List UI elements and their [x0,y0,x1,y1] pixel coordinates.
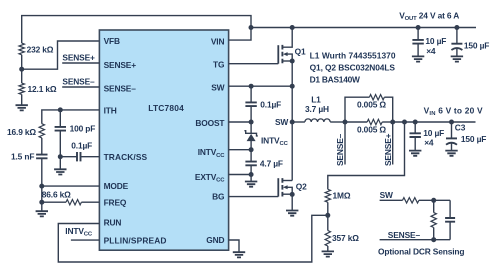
svg-text:Q1: Q1 [295,46,306,56]
wire SW pin [229,85,293,87]
svg-text:BOOST: BOOST [195,118,225,128]
capacitor C3 150uF vin [451,122,453,138]
wire EXTVCC to ground [250,175,252,182]
svg-text:×4: ×4 [424,137,434,147]
svg-text:MODE: MODE [104,181,129,191]
node ITH branch [58,107,63,112]
svg-text:10 µF: 10 µF [425,36,446,46]
svg-text:SENSE+: SENSE+ [62,53,95,63]
ground 10uF vin [409,151,421,156]
wire EXTVCC pin [229,174,252,176]
wire dcr top right [419,199,450,201]
svg-text:TG: TG [213,60,224,70]
svg-text:PLLIN/SPREAD: PLLIN/SPREAD [104,235,167,245]
wire ITH [42,110,100,124]
ground Q2 [286,211,298,216]
wire 232k to divider node [21,55,23,83]
svg-text:SENSE–: SENSE– [104,83,137,93]
resistor 16.9k [39,124,44,138]
svg-text:SENSE–: SENSE– [62,77,95,87]
transistor Q1 [277,45,279,64]
svg-text:SENSE+: SENSE+ [104,60,137,70]
svg-text:BG: BG [212,192,224,202]
wire 1M feed [328,122,405,189]
svg-text:ITH: ITH [104,105,117,115]
node SW inductor junction [290,120,295,125]
svg-text:SW: SW [211,82,224,92]
ground 150uF vout [451,56,463,61]
resistor 232k [19,43,24,55]
capacitor dcr [449,200,451,218]
svg-text:FREQ: FREQ [104,198,127,208]
resistor 357k [325,231,330,247]
svg-text:100 pF: 100 pF [70,124,96,134]
wire VOUT rail [251,27,476,29]
svg-text:L1: L1 [311,95,321,105]
inductor L1 [292,121,305,123]
svg-text:Q2: Q2 [296,181,307,191]
capacitor 0.1uF boost [250,86,252,102]
ground 10uF vout [412,56,424,61]
transistor Q2 [277,178,279,196]
capacitor 100pF branch [59,110,61,127]
resistor 1M [325,189,330,202]
node Q1 drain on rail [290,25,295,30]
svg-text:12.1 kΩ: 12.1 kΩ [28,84,57,94]
ground 357k [322,251,334,256]
svg-text:86.6 kΩ: 86.6 kΩ [42,189,71,199]
ground divider [16,105,28,110]
ground C3 [445,151,457,156]
svg-text:1MΩ: 1MΩ [333,191,351,201]
svg-text:SW: SW [275,117,288,127]
wire GND pin [229,240,239,252]
svg-text:1.5 nF: 1.5 nF [11,152,34,162]
node sense right [390,120,395,125]
wire sense top branch [345,97,369,122]
wire VIN rail [393,121,476,123]
svg-text:0.1µF: 0.1µF [71,140,92,150]
wire sense main right [382,121,393,123]
svg-text:0.1µF: 0.1µF [260,99,281,109]
svg-text:INTVCC: INTVCC [261,135,289,147]
svg-text:232 kΩ: 232 kΩ [27,44,54,54]
net label SENSE+ tap [392,122,394,165]
wire 1M to node [327,202,329,230]
resistor dcr filter [403,198,419,203]
wire INTVCC pin [229,149,252,151]
node SW boost-cap tap [249,84,254,89]
node INTVCC [249,147,254,152]
node dcr top [431,198,436,203]
svg-text:SENSE–: SENSE– [335,133,345,166]
wire VFB [22,41,100,69]
svg-text:D1 BAS140W: D1 BAS140W [310,74,360,84]
wire BG [229,196,279,198]
node FREQ junction [39,200,44,205]
svg-text:Optional DCR Sensing: Optional DCR Sensing [378,247,464,257]
wire VOUT feedback top rail [22,16,251,43]
wire SW rail down to Q2 [291,86,293,180]
wire Q2 source to ground [291,194,293,210]
wire to ground track [59,157,61,169]
node SW Q1 source [290,84,295,89]
svg-text:LTC7804: LTC7804 [148,103,184,113]
wire dcr bottom [380,239,451,241]
node BOOST [249,120,254,125]
wire dcr top left [380,199,403,201]
node sense left [343,120,348,125]
svg-text:L1 Wurth 7443551370: L1 Wurth 7443551370 [310,51,396,61]
capacitor 150uF vout [456,28,458,44]
svg-text:VOUT 24 V at 6 A: VOUT 24 V at 6 A [399,10,459,22]
node 1M feed [402,120,407,125]
svg-text:3.7 µH: 3.7 µH [305,104,329,114]
diode D1 schottky [250,122,252,133]
svg-text:C3: C3 [455,123,466,133]
svg-text:357 kΩ: 357 kΩ [332,233,359,243]
wire 100pF to track node [59,131,61,157]
net label SENSE- tap [344,122,346,165]
svg-text:150 µF: 150 µF [464,41,489,51]
node MODE junction [39,184,44,189]
svg-text:SENSE–: SENSE– [388,230,421,240]
capacitor 10uF x4 vin [414,122,416,133]
svg-text:RUN: RUN [104,218,122,228]
wire 12.1k to ground [21,94,23,105]
node EXTVCC ground junction [249,172,254,177]
wire RUN loop to divider [58,215,328,262]
wire 357k to ground [327,246,329,251]
svg-text:SENSE+: SENSE+ [383,133,393,166]
wire FREQ left [42,201,66,203]
node divider junction [19,67,24,72]
ground freq [36,211,48,216]
node dcr bottom [431,237,436,242]
node C3 [449,120,454,125]
wire VIN pin to VOUT rail [229,28,251,41]
ground track [54,169,66,174]
svg-text:VIN 6 V to 20 V: VIN 6 V to 20 V [424,105,483,117]
wire BOOST pin [229,121,252,123]
wire TRACK/SS right segment [80,156,99,158]
wire TRACK/SS left segment [60,156,77,158]
resistor 0.005 main [367,119,382,124]
svg-text:0.005 Ω: 0.005 Ω [357,100,386,110]
wire sense main left [345,121,367,123]
node track ground junction [58,154,63,159]
svg-text:TRACK/SS: TRACK/SS [104,152,148,162]
node 10uF vin [413,120,418,125]
svg-text:×4: ×4 [426,46,436,56]
capacitor 1.5nF [36,155,47,159]
svg-text:16.9 kΩ: 16.9 kΩ [7,127,36,137]
capacitor 4.7uF [250,150,252,162]
wire FREQ right [81,201,99,203]
IC U1 LTC7804 controller body [99,30,228,250]
svg-text:Q1, Q2 BSC032N04LS: Q1, Q2 BSC032N04LS [310,63,396,73]
svg-text:SW: SW [380,190,393,200]
resistor 0.005 top [369,95,384,100]
resistor 12.1k [19,83,24,94]
resistor 86.6k [66,200,81,205]
node 10uF vout [416,25,421,30]
svg-text:INTVCC: INTVCC [65,226,93,238]
ground GND pin [233,252,245,257]
wire 16.9k to 1.5nF [41,138,43,155]
svg-text:0.005 Ω: 0.005 Ω [357,124,386,134]
svg-text:VIN: VIN [211,37,225,47]
resistor dcr parallel [433,200,435,212]
wire Q1 source down to SW [291,61,293,86]
ground EXTVCC [245,182,257,187]
node 150uF vout [454,25,459,30]
wire 1.5nF down to MODE rail [41,158,43,186]
wire TG [229,63,279,65]
svg-text:150 µF: 150 µF [461,134,486,144]
node RUN divider [325,213,330,218]
node VIN-VOUT junction [249,25,254,30]
wire MODE rail down [41,186,43,211]
svg-text:GND: GND [206,235,224,245]
capacitor 10uF x4 vout [417,28,419,40]
svg-text:VFB: VFB [104,36,120,46]
svg-text:4.7 µF: 4.7 µF [260,159,283,169]
capacitor 0.1uF track [77,152,81,161]
wire MODE [42,185,100,187]
